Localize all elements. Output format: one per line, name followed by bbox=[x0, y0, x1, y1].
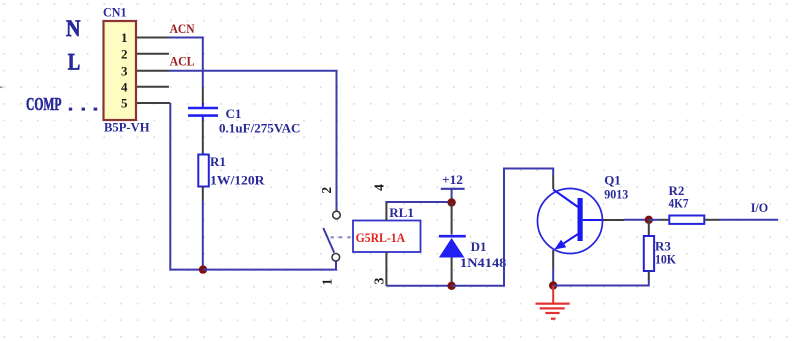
svg-text:R1: R1 bbox=[210, 154, 226, 169]
dotted linkage line to relay body bbox=[331, 236, 351, 238]
port label N bbox=[66, 16, 81, 41]
junction dot diode anode / rail bbox=[447, 282, 455, 290]
svg-text:2: 2 bbox=[121, 47, 128, 62]
svg-text:CN1: CN1 bbox=[103, 5, 127, 20]
svg-text:+12: +12 bbox=[442, 172, 463, 187]
svg-text:1: 1 bbox=[121, 30, 128, 45]
resistor R2 body bbox=[669, 216, 704, 224]
svg-text:3: 3 bbox=[371, 277, 386, 284]
relay coil pin 4 number bbox=[371, 184, 386, 191]
connector pin 1 bbox=[121, 30, 169, 45]
svg-text:N: N bbox=[66, 16, 81, 41]
wire ground node to R3 bottom bbox=[553, 279, 649, 286]
ground symbol bbox=[536, 286, 570, 320]
svg-text:D1: D1 bbox=[471, 239, 487, 254]
svg-text:1: 1 bbox=[319, 278, 334, 285]
svg-text:4K7: 4K7 bbox=[669, 195, 689, 210]
svg-text:1N4148: 1N4148 bbox=[460, 255, 507, 270]
resistor R3 bbox=[644, 220, 654, 280]
svg-text:2: 2 bbox=[319, 187, 334, 194]
svg-text:COMP: COMP bbox=[26, 94, 62, 114]
relay contact pin 2 terminal bbox=[333, 211, 341, 219]
svg-text:ACL: ACL bbox=[170, 55, 195, 69]
wire pin3 (ACL net) to relay contact 2 bbox=[169, 71, 337, 211]
svg-text:B5P-VH: B5P-VH bbox=[104, 120, 150, 135]
svg-text:G5RL-1A: G5RL-1A bbox=[356, 230, 406, 245]
svg-text:C1: C1 bbox=[226, 106, 242, 121]
connector CN1 body bbox=[104, 21, 137, 120]
connector CN1 value B5P-VH bbox=[104, 120, 150, 135]
svg-text:3: 3 bbox=[121, 63, 128, 78]
wire pin5 down to bottom rail bbox=[170, 103, 203, 270]
svg-text:I/O: I/O bbox=[751, 200, 769, 215]
connector pin 4 bbox=[121, 80, 169, 95]
junction dot base node bbox=[645, 216, 653, 224]
bottom-left rail wire to relay contact 1 bbox=[203, 261, 336, 269]
relay contact pin 1 terminal bbox=[332, 253, 340, 261]
resistor R2 designator bbox=[669, 183, 685, 198]
wire emitter to ground node bbox=[552, 250, 554, 286]
junction dot emitter/ground bbox=[549, 281, 557, 289]
resistor R1 designator bbox=[210, 154, 226, 169]
relay coil pin 3 number bbox=[371, 277, 386, 284]
connector pin 3 bbox=[121, 63, 169, 78]
connector CN1 designator bbox=[103, 5, 127, 20]
diode D1 designator bbox=[471, 239, 487, 254]
resistor R1 value 1W/120R bbox=[210, 172, 265, 187]
wire pin1 to C1 top (ACN net) bbox=[169, 38, 203, 104]
port label L bbox=[68, 50, 81, 75]
capacitor C1 value 0.1uF/275VAC bbox=[219, 120, 301, 135]
resistor R1 bbox=[198, 155, 209, 187]
svg-text:5: 5 bbox=[121, 96, 128, 111]
svg-text:Q1: Q1 bbox=[604, 172, 621, 187]
transistor Q1 bbox=[538, 189, 603, 254]
capacitor C1 bbox=[188, 103, 218, 121]
svg-text:4: 4 bbox=[371, 184, 386, 191]
relay RL1 value G5RL-1A bbox=[356, 230, 406, 245]
relay coil pin 4 wire to +12 bbox=[386, 201, 451, 221]
resistor R2 value 4K7 bbox=[669, 195, 689, 210]
svg-text:L: L bbox=[68, 50, 81, 75]
relay RL1 designator bbox=[389, 205, 414, 220]
relay RL1 body bbox=[353, 221, 421, 253]
port label COMP... bbox=[26, 94, 97, 114]
svg-text:10K: 10K bbox=[655, 252, 677, 267]
svg-text:9013: 9013 bbox=[604, 186, 628, 201]
wire R1 bottom to junction bbox=[202, 187, 204, 270]
junction dot bottom-left rail bbox=[199, 265, 207, 273]
transistor Q1 value 9013 bbox=[604, 186, 628, 201]
resistor R3 designator bbox=[655, 238, 671, 253]
wire R2 to I/O bbox=[704, 219, 778, 221]
wire rail to transistor collector bbox=[452, 169, 554, 286]
wire base to R2/R3 node bbox=[603, 219, 649, 221]
net label I/O bbox=[751, 200, 769, 215]
relay switch blade bbox=[323, 228, 334, 253]
junction dot +12 node bbox=[447, 198, 455, 206]
pin wire C1 bottom to R1 top bbox=[202, 120, 204, 155]
clipped wire stub at left edge bbox=[0, 86, 3, 88]
svg-text:0.1uF/275VAC: 0.1uF/275VAC bbox=[219, 120, 301, 135]
svg-text:RL1: RL1 bbox=[389, 205, 414, 220]
diode D1 value 1N4148 bbox=[460, 255, 507, 270]
connector pin 5 bbox=[121, 96, 170, 111]
capacitor C1 designator bbox=[226, 106, 242, 121]
resistor R3 value 10K bbox=[655, 252, 677, 267]
net label ACN bbox=[170, 22, 195, 36]
net label ACL bbox=[170, 55, 195, 69]
transistor Q1 designator bbox=[604, 172, 621, 187]
wire base node to R2 bbox=[649, 219, 670, 221]
svg-text:4: 4 bbox=[121, 80, 128, 95]
relay contact pin 1 number bbox=[319, 278, 334, 285]
connector pin 2 bbox=[121, 47, 169, 62]
relay contact pin 2 number bbox=[319, 187, 334, 194]
power port +12 bbox=[441, 172, 465, 202]
svg-text:1W/120R: 1W/120R bbox=[210, 172, 265, 187]
relay coil pin 3 wire to bottom rail bbox=[386, 252, 451, 286]
svg-text:ACN: ACN bbox=[170, 22, 195, 36]
diode D1 bbox=[439, 203, 466, 286]
